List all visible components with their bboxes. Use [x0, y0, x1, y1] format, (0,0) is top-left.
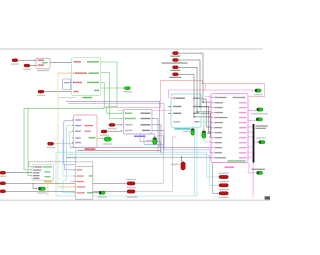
wire (row stub 96.8) [205, 96, 210, 98]
label U1 marks [42, 62, 48, 63]
label RO4 [256, 137, 266, 138]
outport G6 [38, 187, 45, 190]
label S2 r1 [125, 113, 126, 114]
wire (cyan feed2) [63, 158, 75, 193]
wire (pink) [118, 109, 171, 111]
label S1 name [83, 97, 93, 99]
label M1 row4 [211, 112, 213, 114]
wire (row stub 142) [204, 138, 210, 142]
label S1 out1 [87, 61, 99, 63]
label R4 [108, 128, 117, 129]
block LB1 (blue) [64, 121, 76, 165]
label S2 r2 [125, 118, 126, 119]
wire [248, 110, 256, 112]
subsystem C1 [171, 94, 201, 127]
label S3 out [89, 137, 96, 138]
label GB row [77, 192, 86, 193]
inport TI4 [173, 73, 179, 76]
label RO2 [251, 113, 268, 114]
label M1 row6 [211, 122, 213, 124]
wire (magenta arrow C1) [172, 98, 173, 99]
inport TI1 [173, 52, 179, 55]
label IN1 [11, 63, 19, 64]
inport IN1 [12, 59, 18, 62]
label M1 row12 [211, 152, 213, 154]
wire (blue bus2) [70, 146, 210, 148]
label TI1 [170, 56, 180, 57]
wire (model boundary top) [0, 48, 263, 50]
label M1 right11 [239, 147, 247, 148]
label S3 row [75, 131, 81, 132]
block G5 (gps3) [153, 138, 157, 145]
label C1 right3 [193, 113, 200, 114]
wire (gray feedback) [29, 162, 93, 188]
label G6 [37, 192, 47, 193]
wire [115, 124, 121, 126]
label BM2b [127, 197, 138, 198]
label GB row [77, 181, 85, 182]
block GB [75, 166, 93, 199]
label MODE g2 [45, 171, 51, 172]
inport LO2 [0, 182, 6, 185]
outport RO4 [259, 141, 265, 144]
label MODE name [44, 181, 53, 182]
label S3 row [75, 125, 81, 126]
label M1 right13 [239, 157, 247, 158]
wire (cyan row stub) [197, 121, 210, 123]
label RO3 [256, 125, 269, 126]
wire (row stub 152) [209, 151, 211, 153]
label S1 in3 [73, 82, 74, 83]
wire (violet bus) [68, 104, 210, 150]
wire [70, 81, 72, 83]
outport BM1 [127, 182, 135, 185]
inport IN2 [24, 64, 30, 67]
wire (blue bus) [66, 101, 160, 147]
label BM2 [127, 187, 137, 188]
outport G1 [104, 137, 111, 141]
inport IN3 [38, 90, 44, 93]
wire (cyan bottom) [56, 152, 197, 196]
label BR3 [219, 189, 230, 190]
wire (S2 drop2) [144, 134, 164, 155]
label TI4 [169, 77, 181, 78]
label LO1 [0, 176, 7, 177]
label M1 row8 [211, 132, 213, 134]
wire (model boundary bottom) [0, 199, 270, 201]
label C1 r3 [173, 113, 181, 114]
label RT [171, 164, 179, 165]
wire [30, 65, 35, 67]
wire (cyan feed) [63, 140, 75, 177]
block MODE [32, 165, 54, 181]
label MODE r3 [33, 172, 40, 173]
wire [50, 61, 70, 63]
label M1 dashes [228, 160, 246, 161]
wire [6, 172, 31, 174]
outport BR1 [219, 175, 228, 178]
label S1 out2 [89, 72, 100, 74]
block G3 (gps) [191, 129, 195, 136]
subsystem M1 (HV loads) [211, 93, 248, 162]
wire [196, 127, 198, 196]
inport TI3 [173, 66, 179, 69]
wire [148, 134, 155, 137]
label M1 right8 [239, 132, 247, 133]
wire (salmon) [103, 80, 265, 107]
label G5 [146, 140, 152, 141]
wire [54, 143, 73, 145]
label S2 right1 [141, 113, 151, 114]
label IN2 [23, 69, 31, 70]
label GB g1 [89, 175, 93, 176]
wire (row stub 157) [212, 156, 214, 158]
wire (yellow drop) [47, 180, 49, 196]
wire (cyan bus1) [56, 152, 218, 177]
outport RO2 [257, 108, 263, 111]
label M1 right9 [239, 137, 247, 138]
wire (pink drop2) [252, 163, 254, 198]
wire (C1 out2) [201, 107, 210, 133]
label C1 right1 [193, 98, 200, 99]
label MODE r4 [33, 175, 40, 176]
wire (C1 out3) [201, 113, 211, 137]
label RO3b [256, 128, 267, 129]
outport OUT-G2 [124, 87, 130, 90]
subsystem S3 (T-BOX) [74, 115, 98, 147]
label U1 row2 [38, 64, 45, 66]
block dark corner [265, 196, 270, 199]
wire [179, 74, 210, 117]
label M1 row3 [211, 107, 213, 109]
label S1 out4 [94, 90, 99, 92]
wire [248, 119, 255, 121]
wire [135, 137, 176, 191]
label M1 row9 [211, 137, 213, 139]
wire [97, 137, 102, 139]
label S2 r3 [125, 124, 133, 125]
label C1 r1 [173, 98, 174, 99]
wire [168, 106, 171, 108]
wire (RT feed) [181, 157, 183, 161]
wire (salmon junction) [204, 84, 206, 90]
label MODE g1 [43, 166, 53, 167]
label G1 [103, 143, 112, 144]
junction dots [202, 101, 203, 102]
label MODE r2 [33, 169, 41, 170]
label M1 row7 [211, 127, 213, 129]
block LB3 (cyan) [69, 132, 76, 146]
wire [6, 182, 127, 184]
label L4 [47, 147, 56, 148]
label M1 right3 [239, 107, 247, 108]
label BM1 [127, 179, 137, 180]
label G4 [207, 132, 214, 133]
label R5 [100, 135, 109, 136]
label TI2 [162, 62, 188, 63]
outport BR2 [219, 184, 228, 187]
label GB row [77, 169, 83, 170]
block R5 (src) [101, 130, 107, 133]
label RO1 [254, 94, 263, 95]
label GB g2 [87, 192, 93, 193]
wire [203, 111, 205, 131]
label G7 [98, 196, 107, 197]
label MODE g3 [45, 176, 51, 177]
wire [28, 108, 31, 175]
label G3 [183, 131, 190, 132]
label M1 row5 [211, 117, 213, 119]
outport RO5 [257, 171, 263, 174]
label S1 out3 [87, 82, 99, 84]
label MODE r5 [33, 178, 40, 179]
label M1 row10 [211, 142, 213, 144]
wire [101, 73, 122, 119]
wire [152, 130, 164, 150]
block G4 (gps2) [202, 131, 206, 138]
label S2 r4 [125, 130, 133, 131]
wire [254, 141, 257, 143]
outport RT (tall) [181, 162, 185, 170]
wire [179, 60, 210, 107]
outport BM2 [127, 190, 135, 193]
wire (magenta to outport) [169, 90, 253, 98]
wire (magenta stub) [70, 181, 75, 183]
wire [93, 192, 97, 194]
wire [152, 119, 158, 153]
label M1 right2 [239, 102, 247, 103]
wire [24, 82, 104, 169]
block R4 (src) [109, 123, 115, 126]
wire [6, 190, 127, 192]
wire (blue feed) [65, 165, 75, 170]
outport RO1 [255, 89, 261, 92]
label M1 right4 [239, 112, 247, 113]
label S3 name [85, 148, 96, 150]
label M1 row11 [211, 147, 213, 149]
wire [192, 127, 194, 128]
wire [135, 136, 163, 184]
wire [107, 130, 121, 132]
label S3 row [75, 137, 81, 138]
label RO5 [252, 169, 266, 170]
label S2 name [134, 136, 146, 138]
label M1 row1 [211, 97, 213, 99]
bus bar [253, 124, 255, 163]
label S2 right3 [141, 124, 151, 125]
label S1 in4 [74, 91, 79, 93]
label OUT-G2 [124, 91, 133, 92]
label M1 row13 [211, 157, 213, 159]
wire (cyan bus2) [66, 155, 218, 186]
label S1 in1 [74, 61, 82, 63]
wire (cyan comb) [72, 119, 73, 120]
label U1 name [37, 70, 49, 72]
inport L4 [48, 142, 54, 145]
subsystem S1 [72, 57, 101, 95]
label MODE r1 [33, 166, 34, 167]
label M1 right5 [239, 117, 247, 118]
label S3 mid2 [85, 131, 92, 132]
inport LO3 [0, 190, 6, 193]
wire [179, 53, 210, 102]
wire (gray stub) [58, 96, 76, 98]
label S2 right4 [142, 130, 151, 131]
label IN3 [37, 95, 46, 96]
wire (red) [77, 149, 160, 151]
label C1 right2 [193, 106, 200, 107]
label BR3b [219, 197, 230, 198]
label GB row [77, 175, 84, 176]
label C1 r2 [173, 106, 181, 107]
label S1 in2 [73, 72, 74, 73]
label S2 right2 [141, 118, 151, 119]
label S3 row [75, 119, 81, 120]
wire [168, 112, 171, 114]
label C1 right4 [194, 121, 200, 122]
block B2 (blue src) [63, 79, 71, 90]
label M1 right7 [239, 127, 247, 128]
inport TI2 [173, 59, 179, 62]
label GB row [77, 186, 86, 187]
wire [33, 183, 36, 188]
wire [101, 87, 123, 89]
label M1 right10 [239, 142, 247, 143]
wire [194, 127, 196, 196]
inport LO1 [0, 171, 6, 174]
wire (C1 out1) [201, 99, 210, 127]
block U1 (calc) [36, 58, 50, 68]
wire (pink drop1) [249, 163, 254, 173]
wire (dark bus) [66, 157, 218, 193]
label S3 row [75, 142, 81, 143]
subsystem S2 [123, 109, 152, 134]
wire [101, 62, 122, 113]
label C1 name [175, 128, 191, 130]
wire (S2 drop1) [140, 134, 161, 152]
outport RO3 [256, 118, 262, 121]
label S3 mid [85, 125, 94, 126]
label BR2 [219, 181, 230, 182]
wire [18, 59, 35, 61]
label B2 [64, 82, 70, 83]
label M1 row1b [233, 97, 246, 98]
wire [152, 125, 161, 155]
label BR1 [219, 173, 230, 174]
wire [179, 67, 210, 112]
label M1 right6 [239, 122, 247, 123]
wire [248, 126, 252, 128]
label TI3 [170, 70, 180, 71]
outport BR3 [219, 192, 228, 195]
label M1 name [225, 166, 235, 168]
block LB2 (cyan) [66, 126, 75, 159]
label M1 right12 [239, 152, 247, 153]
outport G7 [99, 191, 105, 194]
wire [44, 91, 70, 93]
label C1 r4 [173, 121, 180, 122]
wire (orange feed) [58, 72, 72, 74]
label M1 row2 [211, 102, 213, 104]
label U1 row1 [38, 60, 45, 62]
